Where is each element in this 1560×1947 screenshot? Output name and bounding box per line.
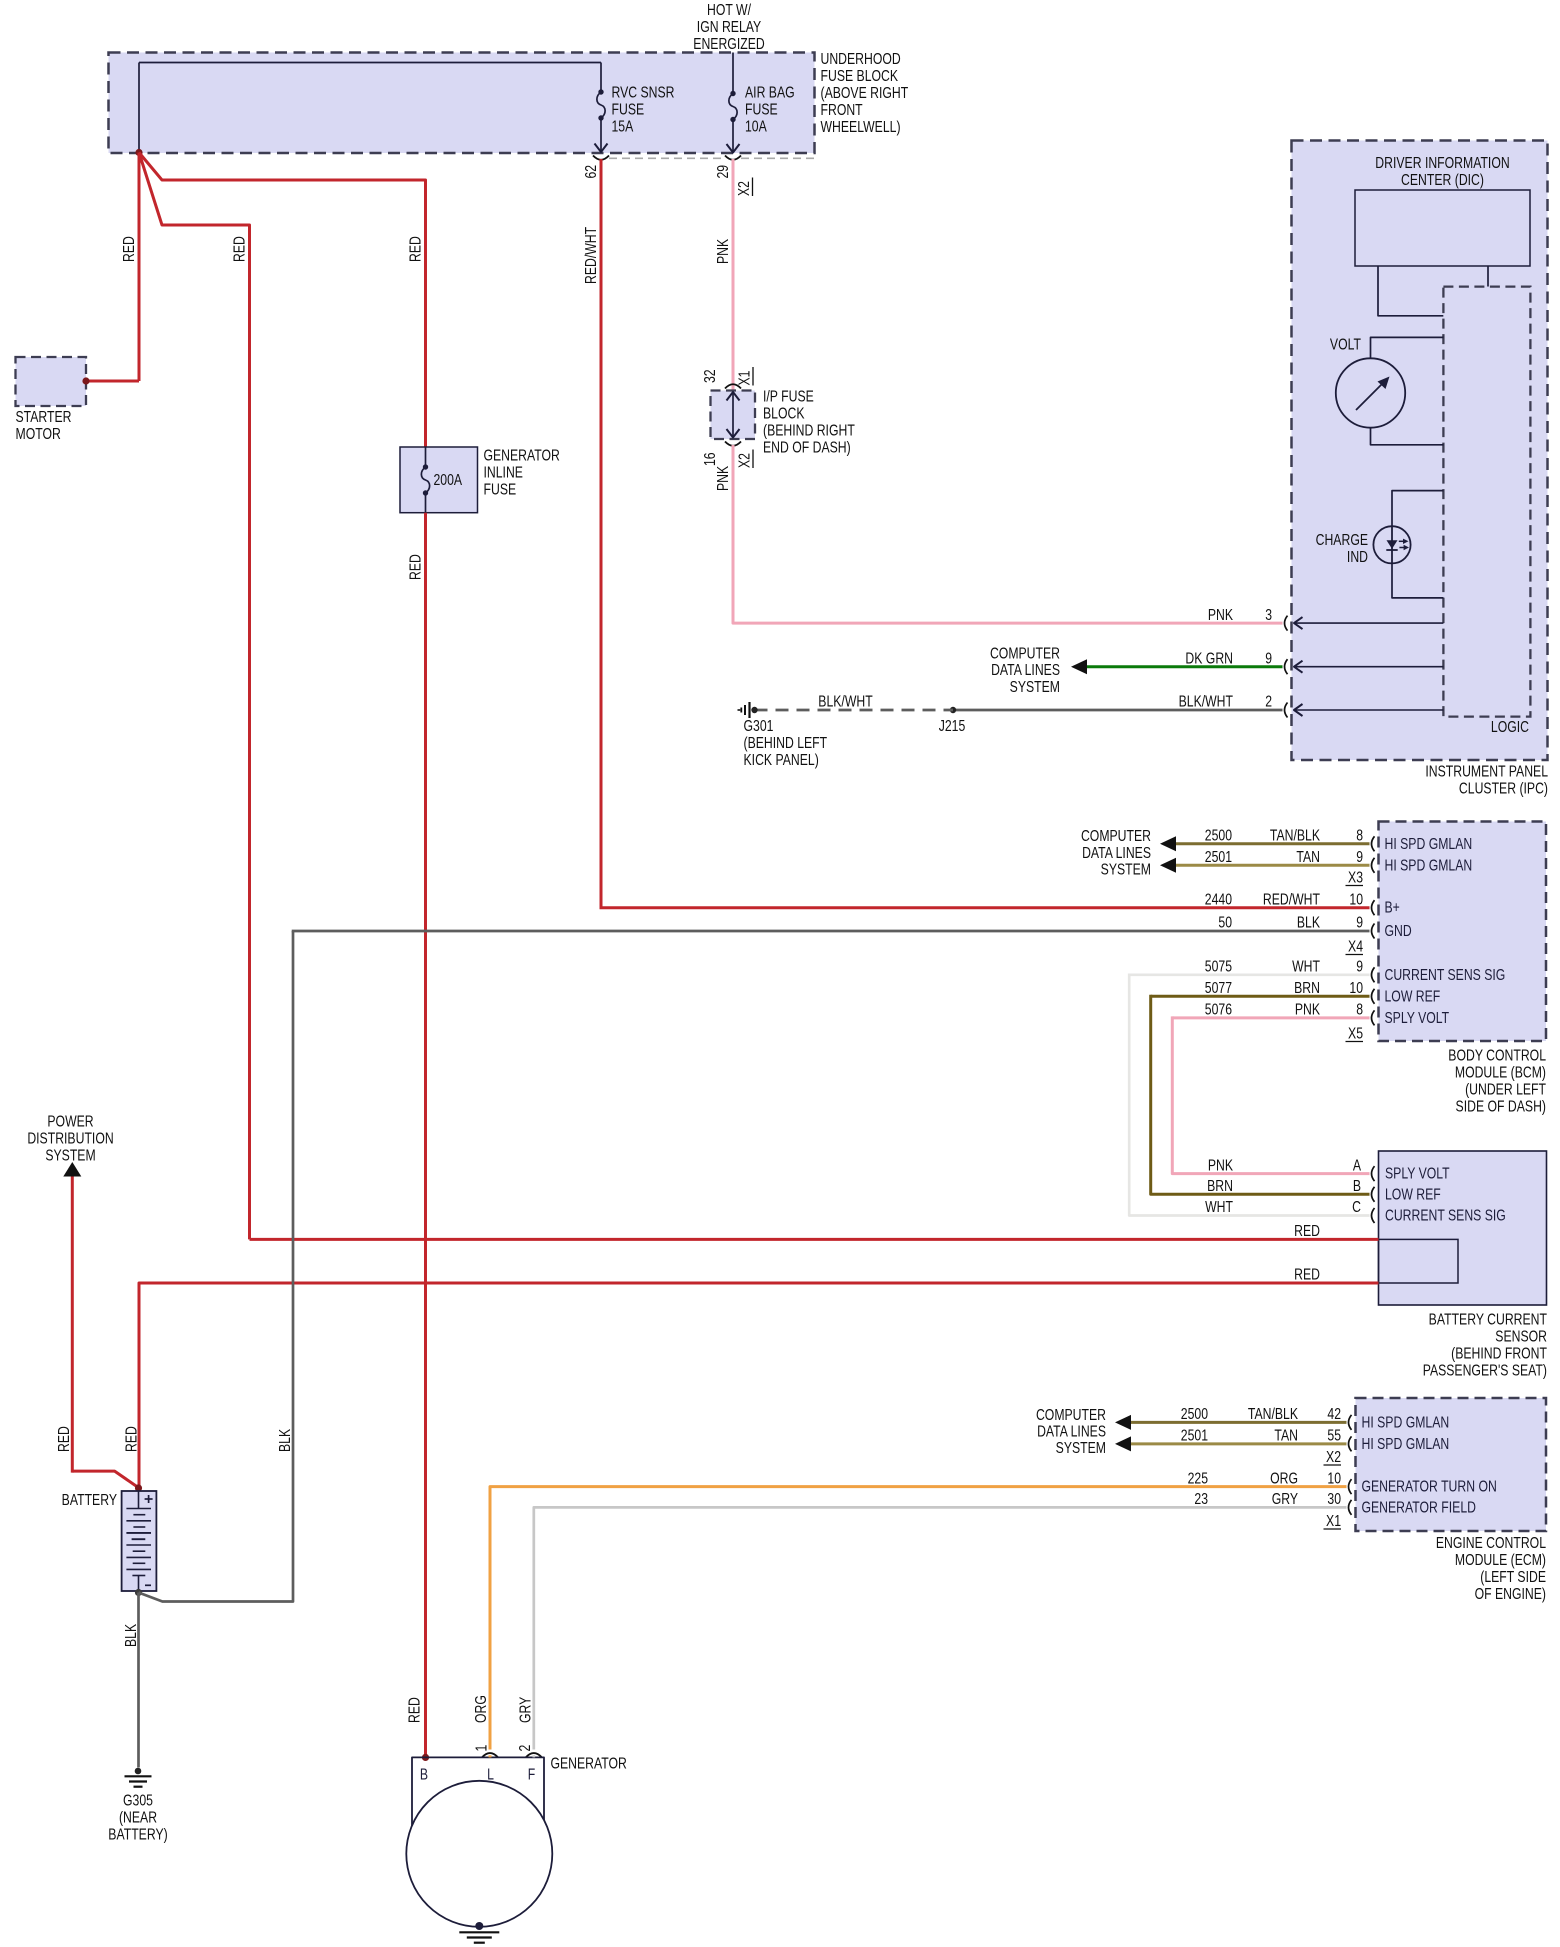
svg-text:GRY: GRY: [1272, 1490, 1298, 1508]
connector X1 (ECM): [1324, 1512, 1342, 1530]
svg-text:B: B: [1353, 1177, 1361, 1195]
wire GRY 23 ECM pin 30 generator field: [534, 1490, 1476, 1750]
svg-text:IND: IND: [1347, 548, 1368, 566]
svg-text:MODULE (ECM): MODULE (ECM): [1455, 1551, 1546, 1569]
svg-text:GENERATOR: GENERATOR: [484, 446, 560, 464]
svg-text:5076: 5076: [1205, 1000, 1232, 1018]
svg-text:RED: RED: [1294, 1222, 1320, 1240]
wire BRN 5077 BCM pin 10 low ref: [1151, 979, 1441, 1005]
svg-text:(BEHIND FRONT: (BEHIND FRONT: [1451, 1344, 1547, 1362]
svg-text:TAN: TAN: [1274, 1426, 1298, 1444]
engine control module (ECM): [1356, 1398, 1547, 1602]
svg-text:2500: 2500: [1181, 1405, 1208, 1423]
splice J215: [939, 707, 966, 735]
svg-text:1: 1: [472, 1744, 490, 1751]
wire BLK battery negative to BCM GND: [135, 931, 293, 1602]
fuse GENERATOR INLINE FUSE 200A: [400, 446, 560, 513]
svg-text:WHT: WHT: [1205, 1198, 1233, 1216]
wire bus inside fuse block: [139, 63, 601, 153]
svg-text:HI SPD GMLAN: HI SPD GMLAN: [1385, 834, 1473, 852]
svg-text:ORG: ORG: [472, 1695, 490, 1723]
svg-text:TAN: TAN: [1296, 848, 1320, 866]
svg-text:RED/WHT: RED/WHT: [1263, 890, 1321, 908]
label UNDERHOOD FUSE BLOCK (ABOVE RIGHT FRONT WHEELWELL): [821, 50, 909, 136]
svg-text:RED: RED: [1294, 1265, 1320, 1283]
svg-text:SIDE OF DASH): SIDE OF DASH): [1456, 1097, 1546, 1115]
wire DIC to logic 2: [1487, 266, 1489, 287]
svg-text:X1: X1: [1326, 1512, 1341, 1530]
svg-text:BODY CONTROL: BODY CONTROL: [1448, 1046, 1546, 1064]
label HOT W/ IGN RELAY ENERGIZED: [693, 1, 764, 53]
svg-text:ENGINE CONTROL: ENGINE CONTROL: [1436, 1534, 1546, 1552]
svg-text:CURRENT SENS SIG: CURRENT SENS SIG: [1385, 1206, 1506, 1224]
connector 2 into generator F: [516, 1744, 542, 1757]
svg-text:HI SPD GMLAN: HI SPD GMLAN: [1362, 1413, 1450, 1431]
connector X3: [1346, 868, 1364, 886]
svg-text:SPLY VOLT: SPLY VOLT: [1385, 1164, 1450, 1182]
svg-text:C: C: [1352, 1198, 1361, 1216]
svg-text:62: 62: [582, 165, 600, 179]
wire RED generator fuse to generator B: [405, 513, 425, 1758]
svg-text:X1: X1: [735, 370, 753, 385]
wire starter motor to junction: [82, 377, 139, 384]
label computer data lines system (IPC): [990, 644, 1060, 695]
svg-text:WHT: WHT: [1292, 957, 1320, 975]
wire BLK/WHT from IPC to J215: [953, 709, 1283, 712]
svg-text:GENERATOR: GENERATOR: [551, 1754, 627, 1772]
svg-text:X2: X2: [735, 181, 753, 196]
svg-text:RED: RED: [405, 1697, 423, 1723]
svg-text:MODULE (BCM): MODULE (BCM): [1455, 1063, 1546, 1081]
svg-text:10: 10: [1349, 890, 1363, 908]
generator: [406, 1754, 627, 1927]
sensor pin B LOW REF: [1207, 1177, 1441, 1203]
svg-text:5077: 5077: [1205, 979, 1232, 997]
svg-text:ENERGIZED: ENERGIZED: [693, 35, 764, 53]
svg-text:DATA LINES: DATA LINES: [1082, 843, 1151, 861]
svg-text:16: 16: [701, 452, 719, 466]
sensor pin A SPLY VOLT: [1208, 1156, 1450, 1182]
svg-text:VOLT: VOLT: [1330, 335, 1362, 353]
wire BLK 50 BCM pin 9 GND: [292, 913, 1412, 939]
svg-text:HI SPD GMLAN: HI SPD GMLAN: [1362, 1435, 1450, 1453]
svg-text:8: 8: [1356, 826, 1363, 844]
svg-text:DK GRN: DK GRN: [1185, 649, 1233, 667]
svg-text:SYSTEM: SYSTEM: [1010, 678, 1060, 696]
svg-text:DRIVER INFORMATION: DRIVER INFORMATION: [1375, 154, 1509, 172]
svg-text:10A: 10A: [745, 117, 767, 135]
svg-text:PNK: PNK: [714, 465, 732, 491]
svg-text:200A: 200A: [434, 471, 463, 489]
svg-text:GENERATOR FIELD: GENERATOR FIELD: [1362, 1498, 1476, 1516]
battery: [62, 1484, 157, 1591]
wire TAN 2501 ECM pin 55: [1115, 1426, 1449, 1452]
svg-text:X4: X4: [1348, 937, 1363, 955]
wire ORG 225 ECM pin 10 generator turn on: [490, 1469, 1497, 1750]
svg-text:BLK: BLK: [122, 1623, 140, 1647]
svg-text:SPLY VOLT: SPLY VOLT: [1385, 1009, 1450, 1027]
svg-text:INLINE: INLINE: [484, 463, 523, 481]
svg-text:(BEHIND LEFT: (BEHIND LEFT: [744, 734, 828, 752]
svg-text:PNK: PNK: [1295, 1000, 1321, 1018]
svg-text:(NEAR: (NEAR: [119, 1808, 157, 1826]
wire RED battery positive feed to sensor: [250, 1222, 1379, 1240]
svg-text:L: L: [487, 1765, 494, 1783]
generator case ground: [459, 1922, 499, 1943]
wire DK GRN to computer data lines: [1071, 659, 1283, 674]
svg-text:OF ENGINE): OF ENGINE): [1475, 1585, 1546, 1603]
svg-text:15A: 15A: [612, 117, 634, 135]
connector X2 (ECM): [1324, 1448, 1342, 1466]
svg-text:ORG: ORG: [1270, 1469, 1298, 1487]
svg-text:COMPUTER: COMPUTER: [1036, 1405, 1106, 1423]
svg-text:PASSENGER'S SEAT): PASSENGER'S SEAT): [1423, 1361, 1547, 1379]
svg-text:BLK: BLK: [276, 1428, 294, 1452]
wire RED to starter motor: [120, 153, 139, 382]
svg-text:X2: X2: [735, 453, 753, 468]
svg-text:29: 29: [714, 165, 732, 179]
connector 32 X1 into I/P fuse block: [701, 367, 753, 389]
svg-text:23: 23: [1194, 1490, 1208, 1508]
svg-text:2440: 2440: [1205, 890, 1232, 908]
svg-text:10: 10: [1327, 1469, 1341, 1487]
wire PNK from I/P fuse block to IPC pin 3: [714, 445, 1283, 623]
svg-text:TAN/BLK: TAN/BLK: [1248, 1405, 1299, 1423]
svg-text:G305: G305: [123, 1791, 153, 1809]
logic module: [1443, 287, 1530, 736]
fuse RVC SNSR FUSE 15A: [595, 83, 675, 152]
label computer data lines system (BCM): [1081, 827, 1151, 878]
svg-text:FUSE: FUSE: [484, 480, 517, 498]
wire RED to battery current sensor: [139, 153, 250, 1240]
svg-text:2: 2: [516, 1744, 534, 1751]
svg-text:G301: G301: [744, 717, 774, 735]
wire PNK 5076 BCM pin 8 sply volt: [1172, 1000, 1449, 1026]
svg-text:X3: X3: [1348, 868, 1363, 886]
volt gauge: [1330, 335, 1443, 445]
wire GRY vertical to generator F: [516, 1697, 534, 1723]
svg-text:FRONT: FRONT: [821, 101, 864, 119]
svg-text:2501: 2501: [1205, 848, 1232, 866]
wire from HOT feed to air bag fuse: [732, 53, 734, 94]
I/P fuse block: [711, 387, 856, 456]
wire PNK from AIR BAG fuse to I/P fuse block: [714, 159, 733, 391]
svg-text:BLK/WHT: BLK/WHT: [1179, 692, 1234, 710]
svg-text:9: 9: [1356, 913, 1363, 931]
wire RED to generator: [139, 153, 426, 448]
label computer data lines system (ECM): [1036, 1405, 1106, 1456]
wire ORG vertical to generator L: [472, 1695, 490, 1723]
svg-text:BRN: BRN: [1207, 1177, 1233, 1195]
svg-text:2: 2: [1265, 692, 1272, 710]
svg-text:SYSTEM: SYSTEM: [1056, 1439, 1106, 1457]
connector X4: [1346, 937, 1364, 955]
svg-text:DATA LINES: DATA LINES: [1037, 1422, 1106, 1440]
svg-text:GENERATOR TURN ON: GENERATOR TURN ON: [1362, 1477, 1497, 1495]
wire RED battery to power distribution: [55, 1177, 139, 1489]
svg-text:10: 10: [1349, 979, 1363, 997]
svg-text:PNK: PNK: [714, 238, 732, 264]
svg-text:CURRENT SENS SIG: CURRENT SENS SIG: [1385, 965, 1506, 983]
IPC pin 9 DK GRN: [1185, 649, 1443, 674]
svg-text:SYSTEM: SYSTEM: [45, 1146, 95, 1164]
svg-text:STARTER: STARTER: [16, 408, 72, 426]
connector strip under fuse block: [609, 157, 814, 159]
svg-text:CLUSTER (IPC): CLUSTER (IPC): [1459, 779, 1548, 797]
svg-text:RED: RED: [120, 236, 138, 262]
svg-text:KICK PANEL): KICK PANEL): [744, 751, 819, 769]
svg-text:(LEFT SIDE: (LEFT SIDE: [1480, 1568, 1546, 1586]
svg-text:8: 8: [1356, 1000, 1363, 1018]
svg-text:RED: RED: [230, 236, 248, 262]
svg-text:9: 9: [1265, 649, 1272, 667]
IPC pin 3 PNK: [1208, 605, 1444, 630]
svg-text:HI SPD GMLAN: HI SPD GMLAN: [1385, 856, 1473, 874]
sensor shunt element: [1379, 1239, 1459, 1283]
svg-text:RED: RED: [55, 1426, 73, 1452]
ground G305: [108, 1768, 167, 1843]
svg-text:30: 30: [1327, 1490, 1341, 1508]
underhood fuse block (box): [109, 53, 815, 154]
svg-text:HOT W/: HOT W/: [707, 1, 751, 19]
svg-text:FUSE: FUSE: [745, 100, 778, 118]
connector terminal 29 X2: [714, 156, 753, 197]
svg-text:FUSE BLOCK: FUSE BLOCK: [821, 67, 899, 85]
svg-text:CENTER (DIC): CENTER (DIC): [1401, 171, 1484, 189]
svg-text:RED: RED: [406, 554, 424, 580]
svg-text:B+: B+: [1385, 898, 1400, 916]
svg-text:LOW REF: LOW REF: [1385, 1185, 1441, 1203]
ground G301: [738, 702, 828, 768]
svg-text:AIR BAG: AIR BAG: [745, 83, 795, 101]
wire TAN/BLK 2500 ECM pin 42: [1115, 1405, 1449, 1431]
svg-text:RED: RED: [122, 1426, 140, 1452]
svg-text:GND: GND: [1385, 922, 1412, 940]
svg-text:J215: J215: [939, 717, 966, 735]
svg-text:CHARGE: CHARGE: [1316, 531, 1368, 549]
svg-text:3: 3: [1265, 605, 1272, 623]
label power distribution system: [27, 1112, 113, 1164]
svg-text:BLOCK: BLOCK: [763, 404, 805, 422]
svg-text:RED: RED: [406, 236, 424, 262]
svg-text:A: A: [1353, 1156, 1362, 1174]
svg-text:B: B: [420, 1765, 428, 1783]
svg-text:50: 50: [1218, 913, 1232, 931]
arrow to power distribution system: [63, 1162, 81, 1177]
svg-text:9: 9: [1356, 848, 1363, 866]
svg-text:X5: X5: [1348, 1024, 1363, 1042]
svg-text:BATTERY): BATTERY): [108, 1825, 167, 1843]
wire WHT 5075 BCM pin 9 current sens sig: [1129, 957, 1505, 983]
svg-text:COMPUTER: COMPUTER: [990, 644, 1060, 662]
svg-text:RED/WHT: RED/WHT: [582, 226, 600, 284]
svg-text:55: 55: [1327, 1426, 1341, 1444]
svg-text:COMPUTER: COMPUTER: [1081, 827, 1151, 845]
svg-text:FUSE: FUSE: [612, 100, 645, 118]
connector terminal 62: [582, 156, 609, 179]
wire BLK battery to G305: [122, 1593, 140, 1768]
wire TAN/BLK 2500 BCM pin 8: [1160, 826, 1472, 852]
svg-text:LOGIC: LOGIC: [1491, 718, 1529, 736]
wire BLK/WHT J215 to G301 (dashed): [755, 692, 954, 710]
starter motor: [16, 357, 87, 442]
body control module (BCM): [1379, 822, 1547, 1115]
svg-text:BRN: BRN: [1294, 979, 1320, 997]
junction node at fuse block: [135, 149, 142, 156]
svg-text:BATTERY CURRENT: BATTERY CURRENT: [1429, 1310, 1548, 1328]
svg-text:END OF DASH): END OF DASH): [763, 438, 851, 456]
svg-text:2501: 2501: [1181, 1426, 1208, 1444]
svg-text:I/P FUSE: I/P FUSE: [763, 387, 814, 405]
svg-text:(BEHIND RIGHT: (BEHIND RIGHT: [763, 421, 855, 439]
svg-text:UNDERHOOD: UNDERHOOD: [821, 50, 901, 68]
svg-text:9: 9: [1356, 957, 1363, 975]
svg-text:WHEELWELL): WHEELWELL): [821, 118, 901, 136]
svg-text:POWER: POWER: [47, 1112, 93, 1130]
svg-text:F: F: [528, 1765, 535, 1783]
svg-text:BLK: BLK: [1297, 913, 1321, 931]
svg-text:(ABOVE RIGHT: (ABOVE RIGHT: [821, 84, 909, 102]
connector 1 into generator L: [472, 1744, 498, 1757]
svg-text:32: 32: [701, 369, 719, 383]
driver information center (DIC): [1355, 154, 1530, 266]
sensor pin C CURRENT SENS SIG: [1205, 1198, 1506, 1224]
svg-text:X2: X2: [1326, 1448, 1341, 1466]
svg-text:INSTRUMENT PANEL: INSTRUMENT PANEL: [1425, 762, 1548, 780]
svg-text:IGN RELAY: IGN RELAY: [697, 18, 761, 36]
svg-text:PNK: PNK: [1208, 1156, 1234, 1174]
svg-text:DISTRIBUTION: DISTRIBUTION: [27, 1129, 113, 1147]
IPC pin 2 BLK/WHT: [1179, 692, 1444, 717]
svg-text:SENSOR: SENSOR: [1495, 1327, 1547, 1345]
charge indicator LED: [1316, 491, 1444, 598]
svg-text:225: 225: [1188, 1469, 1209, 1487]
svg-text:TAN/BLK: TAN/BLK: [1270, 826, 1321, 844]
wire DIC to logic: [1378, 266, 1443, 316]
wire RED/WHT 2440 BCM pin 10 B+: [600, 890, 1400, 916]
svg-text:RVC SNSR: RVC SNSR: [612, 83, 675, 101]
svg-text:5075: 5075: [1205, 957, 1232, 975]
connector X5: [1346, 1024, 1364, 1042]
svg-text:BATTERY: BATTERY: [62, 1491, 117, 1509]
svg-text:SYSTEM: SYSTEM: [1101, 860, 1151, 878]
fuse AIR BAG FUSE 10A: [727, 83, 795, 152]
instrument panel cluster (IPC): [1292, 141, 1549, 797]
svg-text:42: 42: [1327, 1405, 1341, 1423]
wire RED/WHT from RVC SNSR fuse to BCM B+: [582, 159, 601, 908]
svg-text:2500: 2500: [1205, 826, 1232, 844]
svg-text:GRY: GRY: [516, 1697, 534, 1723]
svg-text:DATA LINES: DATA LINES: [991, 661, 1060, 679]
wire PNK vertical to sensor A: [1172, 1016, 1369, 1173]
wire TAN 2501 BCM pin 9: [1160, 848, 1472, 874]
wire WHT vertical to sensor C: [1129, 974, 1369, 1216]
svg-text:PNK: PNK: [1208, 605, 1234, 623]
connector 16 X2 out of I/P fuse block: [701, 442, 753, 469]
svg-text:(UNDER LEFT: (UNDER LEFT: [1465, 1080, 1546, 1098]
svg-text:LOW REF: LOW REF: [1385, 987, 1441, 1005]
svg-text:MOTOR: MOTOR: [16, 425, 61, 443]
wire BRN vertical to sensor B: [1151, 995, 1370, 1195]
battery current sensor: [1379, 1151, 1548, 1379]
svg-text:BLK/WHT: BLK/WHT: [818, 692, 873, 710]
wire RED sensor to battery: [122, 1265, 1378, 1488]
